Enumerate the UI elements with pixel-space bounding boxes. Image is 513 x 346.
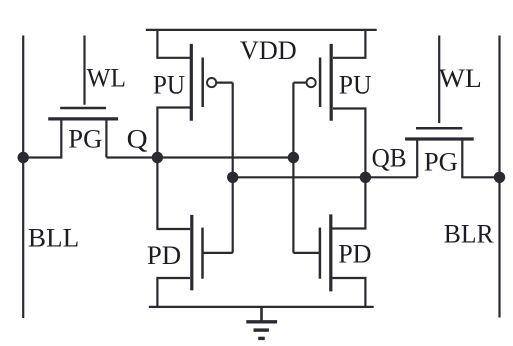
svg-text:PD: PD xyxy=(147,240,181,270)
svg-text:PU: PU xyxy=(339,70,372,100)
svg-text:QB: QB xyxy=(372,142,407,172)
svg-text:WL: WL xyxy=(87,62,126,92)
svg-text:PG: PG xyxy=(68,123,102,153)
svg-text:Q: Q xyxy=(127,123,148,153)
svg-text:PG: PG xyxy=(424,146,458,176)
svg-text:PU: PU xyxy=(153,70,185,100)
svg-text:PD: PD xyxy=(338,238,371,268)
svg-text:BLL: BLL xyxy=(28,223,79,253)
svg-text:VDD: VDD xyxy=(240,35,297,65)
svg-text:BLR: BLR xyxy=(444,218,494,248)
svg-text:WL: WL xyxy=(439,63,482,93)
